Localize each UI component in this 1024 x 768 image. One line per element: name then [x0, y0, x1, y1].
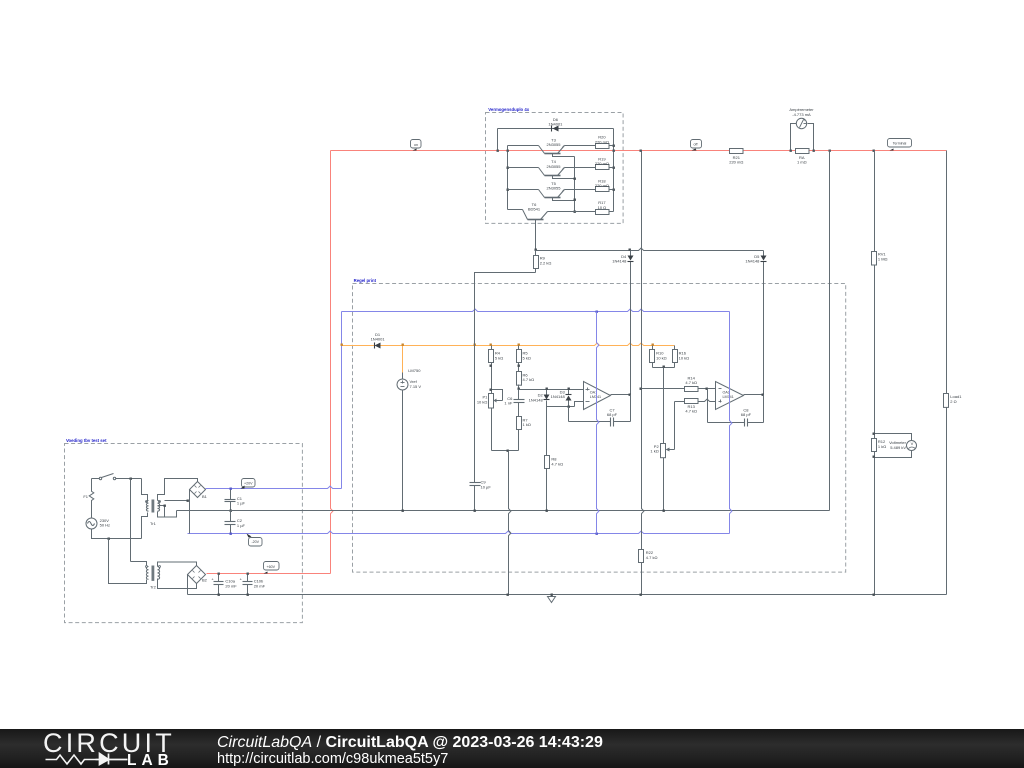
svg-text:on: on: [414, 143, 418, 147]
wire TR2 secondary top lead to B2: [158, 562, 197, 567]
svg-text:1 kΩ: 1 kΩ: [878, 444, 886, 449]
junction dot R5 bottom: [518, 365, 520, 367]
wire OA2 output: [744, 394, 764, 396]
junction dots voltmeter: [873, 433, 875, 435]
svg-text:1N4001: 1N4001: [548, 122, 563, 127]
junction dot OA2 output node: [762, 394, 764, 396]
source LM750 Vref circle: [402, 373, 404, 380]
junction dot C2 bottom: [230, 533, 232, 535]
svg-text:B1: B1: [202, 494, 208, 499]
junction dot x=707 feedback tap: [706, 388, 708, 390]
junction dot red x=507.4: [507, 150, 509, 152]
wire base bus vertical: [574, 157, 576, 212]
resistor R6 4.7k: [517, 372, 522, 386]
resistor RA 1 mOhm shunt: [796, 149, 810, 154]
junction dot red x=497.3: [497, 150, 499, 152]
wire x=474.6 down to C9: [474, 346, 476, 483]
wire TR1 secondary top lead to B1: [158, 479, 198, 501]
resistor R19 220 mOhm: [596, 165, 610, 170]
svg-text:20 mF: 20 mF: [254, 583, 266, 588]
svg-text:LM750: LM750: [408, 368, 421, 373]
section box: Voeding tbv test set (dashed): [65, 444, 303, 623]
resistor R18 220 mOhm: [596, 187, 610, 192]
wire source top to fuse: [91, 503, 93, 518]
junction dots ammeter: [790, 150, 792, 152]
svg-text:5.489 kV: 5.489 kV: [890, 445, 906, 450]
junction dot D3 top: [568, 388, 570, 390]
wire right vertical of bank: [613, 129, 615, 212]
wire R9 jog to x=474.6: [475, 273, 536, 346]
capacitor C2: [230, 511, 232, 522]
svg-text:Vermogensduplo 4x: Vermogensduplo 4x: [488, 107, 529, 112]
capacitor C6: [518, 390, 520, 400]
diode D5 1N4148: [761, 256, 767, 261]
diode D2 1N4148: [544, 395, 550, 400]
svg-text:1 mΩ: 1 mΩ: [797, 160, 807, 165]
junction dots C10a: [218, 573, 220, 575]
ground symbol: [551, 595, 553, 597]
wire TR2 primary top lead: [131, 562, 147, 566]
rectifier B1: [190, 482, 206, 498]
junction dot R4 bottom: [490, 365, 492, 367]
wire TR1 primary top lead: [142, 479, 148, 501]
junction dot red x=613.6: [613, 150, 615, 152]
potentiometer P1 10k: [489, 394, 494, 409]
footer line 1: [217, 734, 603, 752]
wire emitter rail y=250 (hops at x=641): [536, 248, 764, 250]
junction dot R18 right: [613, 189, 615, 191]
junction dot mid rail x=663.3: [663, 510, 665, 512]
svg-text:B2: B2: [202, 577, 208, 582]
resistor R22 4.7k: [639, 550, 644, 563]
svg-text:68 pF: 68 pF: [607, 412, 618, 417]
wire blue +20V rail from B1: [206, 486, 342, 488]
CircuitLab logo: [0, 729, 200, 768]
junction dot orange at blue riser: [341, 344, 343, 346]
resistor R12 1k: [872, 439, 877, 452]
voltage source V1 230V circle: [86, 518, 97, 529]
junction dot R6 bottom node: [518, 388, 520, 390]
svg-text:off: off: [694, 143, 698, 147]
wire top rail of transistor bank: [498, 128, 614, 130]
wire P1 bottom: [491, 409, 493, 451]
svg-text:1 MΩ: 1 MΩ: [878, 256, 888, 261]
svg-text:10 Ω: 10 Ω: [598, 205, 607, 210]
diode D2 vertical: [546, 390, 548, 395]
wire TR1 primary bottom lead: [142, 513, 148, 539]
junction dot orange x=491: [490, 344, 492, 346]
svg-text:-20V: -20V: [251, 540, 259, 544]
svg-text:+: +: [211, 577, 214, 582]
black footer bar: [0, 729, 1024, 768]
svg-text:Terminal: Terminal: [893, 141, 907, 145]
wire orange stub to LM750: [402, 346, 404, 373]
capacitor C8 feedback: [708, 422, 745, 424]
wire drop to Load1: [946, 151, 948, 394]
junction dot U rail: [663, 366, 665, 368]
svg-text:10 kΩ: 10 kΩ: [679, 355, 690, 360]
svg-text:2N3055: 2N3055: [546, 186, 561, 191]
junction dots C10b: [247, 573, 249, 575]
wire fuse to switch corner: [91, 479, 93, 490]
resistor RV1 1M: [872, 252, 877, 266]
wire D5 vertical x=763: [763, 251, 765, 256]
junction dot red x=829.4: [829, 150, 831, 152]
junction dot B1 left wire: [187, 500, 189, 502]
junction dot red x=874: [873, 150, 875, 152]
resistor R8 4.7k vertical: [546, 407, 548, 456]
junction dot mid rail x=474.6: [474, 510, 476, 512]
wire source bottom rail: [92, 529, 142, 539]
ammeter AM1 branch: [791, 124, 797, 151]
junction dot orange x=474.6: [474, 344, 476, 346]
wire D4 vertical x=630: [630, 251, 632, 256]
wire C8 feedback left riser: [707, 389, 709, 423]
wire x=641 vertical red rail to R22 (hops at 0V rail): [642, 151, 644, 550]
diode D6 1N4001: [553, 126, 559, 132]
svg-text:2.2 kΩ: 2.2 kΩ: [540, 261, 552, 266]
svg-text:1 kΩ: 1 kΩ: [650, 449, 658, 454]
resistor R10 10k: [652, 346, 654, 350]
svg-text:2N3055: 2N3055: [546, 142, 561, 147]
wire red top rail: [331, 150, 947, 152]
wire orange reference rail (hops at blue x=597, x=630, x=641): [342, 343, 675, 345]
resistor R13 4.7k: [685, 399, 699, 404]
svg-text:OA2: OA2: [723, 391, 730, 395]
capacitor C9: [470, 482, 481, 484]
flag on (net flag on red rail): [411, 140, 422, 149]
wire B1 minus drop to -20V: [189, 490, 191, 534]
wire TR1 secondary lower lead: [158, 511, 177, 518]
capacitor C10b electrolytic: [247, 574, 249, 582]
flag off: [691, 140, 702, 149]
junction dot red x=641: [640, 150, 642, 152]
svg-text:10 kΩ: 10 kΩ: [477, 400, 488, 405]
wire x=874 vertical: [874, 151, 876, 252]
svg-text:220 mΩ: 220 mΩ: [595, 183, 609, 188]
svg-text:20 mF: 20 mF: [225, 583, 237, 588]
junction dot blue bottom x=597: [596, 533, 598, 535]
wire P1/R7 bottom rail: [492, 450, 519, 452]
wire x=829.4 vertical (red rail to 0V rail end): [829, 151, 831, 511]
junction dot D2 top: [546, 388, 548, 390]
wire OA1 - input stub: [575, 402, 584, 407]
svg-text:1 µF: 1 µF: [237, 523, 246, 528]
resistor R21 220 mOhm: [730, 149, 744, 154]
svg-text:10 µF: 10 µF: [481, 484, 492, 489]
junction dot node A: [130, 478, 132, 480]
wire TR2 secondary bottom lead: [158, 579, 197, 589]
fuse F1: [89, 489, 94, 502]
junction dot OA1 output node: [629, 394, 631, 396]
transistor T4 2N3055: [508, 167, 539, 169]
resistor R14 4.7k: [685, 387, 699, 392]
junction dot base bus T4: [574, 178, 576, 180]
junction dot C1 bottom: [230, 510, 232, 512]
diode D3 1N4148: [566, 396, 572, 401]
svg-text:4.7 kΩ: 4.7 kΩ: [646, 555, 658, 560]
potentiometer P2 1k: [661, 444, 666, 458]
resistor R16 10k: [674, 346, 676, 350]
svg-text:1N4148: 1N4148: [551, 394, 566, 399]
wire R10/R16 bottom U rail: [653, 367, 675, 369]
wire red bottom rail to B2: [207, 573, 331, 575]
flag +60V: [264, 562, 280, 571]
resistor R7 1k: [517, 417, 522, 430]
svg-text:4.7 kΩ: 4.7 kΩ: [685, 380, 697, 385]
wire T6 base down to rail: [535, 223, 537, 251]
diode D4 1N4148: [628, 256, 634, 261]
wire x=663.3 down to P2: [663, 368, 665, 444]
resistor R5 5k: [518, 346, 520, 350]
junction dot ground x=641: [640, 594, 642, 596]
wire left vertical from D6: [497, 129, 499, 151]
diode D1 1N4001 on orange rail: [375, 343, 381, 349]
wire OA1 output: [611, 394, 631, 396]
svg-text:-4.773 mA: -4.773 mA: [792, 112, 811, 117]
wire TR1 center tap: [158, 506, 165, 517]
op-amp OA2 LM741: [716, 382, 744, 410]
svg-text:+60V: +60V: [267, 565, 276, 569]
junction dot base bus bottom: [574, 211, 576, 213]
svg-text:220 mΩ: 220 mΩ: [729, 160, 743, 165]
wire node A down to TR2: [130, 479, 132, 562]
flag -20V: [249, 538, 263, 547]
svg-text:+: +: [240, 577, 243, 582]
section box: Regel print (dashed): [353, 284, 846, 573]
wire blue mid vertical x=597 (hops orange, feedback, 0V): [597, 312, 599, 534]
svg-text:2N3055: 2N3055: [546, 164, 561, 169]
junction dot orange x=518.6: [518, 344, 520, 346]
svg-text:1N4148: 1N4148: [745, 259, 760, 264]
junction dot blue top x=597: [596, 311, 598, 313]
wire diode bottom rail: [547, 406, 575, 408]
capacitor C10a electrolytic: [218, 574, 220, 582]
flag Terminal: [888, 139, 912, 148]
junction dot diode rail x=568.4: [568, 406, 570, 408]
svg-text:LM741: LM741: [723, 395, 734, 399]
transformer Tr1: [146, 501, 148, 512]
switch S1: [99, 477, 101, 479]
junction dot source bottom: [108, 538, 110, 540]
junction dot collector T4: [507, 167, 509, 169]
svg-text:50 Hz: 50 Hz: [100, 523, 110, 528]
svg-text:LM741: LM741: [590, 395, 601, 399]
wire blue -20V bottom rail (hops at red,508,641): [188, 531, 730, 533]
junction dot D4 top: [629, 249, 631, 251]
svg-text:5 kΩ: 5 kΩ: [495, 355, 503, 360]
wire TR2 primary bottom lead: [109, 539, 147, 584]
wire P2 bottom to 0V: [663, 458, 665, 511]
diode D3 vertical: [568, 390, 570, 395]
svg-text:F1: F1: [83, 494, 88, 499]
transistor T5 2N3055: [508, 189, 539, 191]
op-amp OA1 LM741: [584, 382, 611, 410]
svg-text:4.7 kΩ: 4.7 kΩ: [685, 409, 697, 414]
svg-text:220 mΩ: 220 mΩ: [595, 161, 609, 166]
wire Load1 bottom to ground rail: [946, 408, 948, 595]
svg-text:68 pF: 68 pF: [741, 412, 752, 417]
junction dot center tap: [164, 505, 166, 507]
svg-text:BD541: BD541: [528, 207, 541, 212]
wire blue right riser (hops at feedback and 0V rail): [730, 312, 732, 534]
svg-text:1N4148: 1N4148: [529, 398, 544, 403]
junction dot ground x=874: [873, 594, 875, 596]
wire switch to node A: [116, 478, 142, 480]
capacitor C7 feedback: [569, 421, 611, 423]
capacitor C1: [230, 489, 232, 500]
svg-text:2 Ω: 2 Ω: [950, 399, 956, 404]
svg-text:Regel print: Regel print: [354, 278, 377, 283]
svg-text:1 nF: 1 nF: [504, 401, 513, 406]
junction dot x=641 at R14 rail: [640, 388, 642, 390]
junction dot mid rail x=546.9: [546, 510, 548, 512]
svg-text:7.15 V: 7.15 V: [410, 384, 422, 389]
junction dot R20 right: [613, 145, 615, 147]
junction dot collector T5: [507, 189, 509, 191]
transformer Tr2: [146, 567, 148, 580]
svg-text:4.7 kΩ: 4.7 kΩ: [551, 462, 563, 467]
junction dot R19 right: [613, 167, 615, 169]
resistor R17 10 Ohm: [596, 210, 610, 215]
resistor Load1 2 Ohm: [944, 394, 949, 408]
junction dot orange x=652.2: [652, 344, 654, 346]
svg-text:1N4148: 1N4148: [612, 259, 627, 264]
transistor T3 2N3055: [508, 145, 539, 147]
wire B2 minus drop to ground rail: [187, 575, 189, 595]
wire blue left riser: [341, 312, 343, 489]
svg-text:Tr1: Tr1: [150, 521, 157, 526]
flag +20V: [242, 479, 256, 488]
wire OA2 - input rail: [642, 388, 685, 390]
svg-text:1 µF: 1 µF: [237, 501, 246, 506]
svg-text:Voeding tbv test set: Voeding tbv test set: [66, 438, 107, 443]
svg-text:4.7 kΩ: 4.7 kΩ: [523, 377, 535, 382]
wire P2 wiper riser: [674, 402, 676, 450]
junction dot mid rail x=402.4: [402, 510, 404, 512]
wire red left riser (hops at 0V rail): [331, 151, 333, 574]
resistor R9 2.2k: [535, 251, 537, 256]
svg-text:LAB: LAB: [127, 752, 174, 768]
wire collector rail (left vertical): [507, 146, 509, 210]
svg-text:V: V: [911, 441, 914, 446]
transistor T6 BD541: [508, 209, 523, 211]
svg-text:Tr2: Tr2: [150, 584, 157, 589]
wire 0V mid rail (from TR1 tap to right riser): [177, 510, 830, 512]
junction dot ground x=508: [507, 594, 509, 596]
wire TR1 sec to B1 left: [165, 500, 188, 502]
rectifier B2: [188, 566, 206, 584]
junction dot orange x=402: [402, 344, 404, 346]
junction dot C1 top: [230, 488, 232, 490]
junction dot base bus T5: [574, 199, 576, 201]
wire C7 feedback left riser: [568, 407, 570, 422]
resistor R4 5k: [491, 346, 493, 350]
wire blue top edge (hops at x=474.6,630,641): [342, 309, 730, 311]
svg-text:1N4001: 1N4001: [371, 337, 386, 342]
svg-text:1 kΩ: 1 kΩ: [523, 422, 531, 427]
junction dot rail x=535.5: [535, 249, 537, 251]
wire OA1 + input rail: [519, 389, 584, 391]
wire x=508 drop to ground (hops 0V and -20V): [509, 451, 511, 595]
wire R14 to OA2: [699, 388, 716, 390]
junction dot bottom rail x=508: [507, 450, 509, 452]
resistor R20 220 mOhm: [596, 144, 610, 149]
footer line 2: [217, 751, 448, 767]
svg-text:+20V: +20V: [244, 482, 253, 486]
wire OA2 + input rail (hops x=707): [675, 399, 716, 401]
voltmeter VM1 branch: [875, 434, 912, 441]
section box: Vermogensduplo 4x (dashed): [486, 113, 624, 224]
svg-text:10 kΩ: 10 kΩ: [656, 355, 667, 360]
svg-text:5 kΩ: 5 kΩ: [523, 355, 531, 360]
wire ground rail: [188, 594, 947, 596]
svg-text:220 mΩ: 220 mΩ: [595, 139, 609, 144]
wire corner to switch: [92, 478, 100, 480]
